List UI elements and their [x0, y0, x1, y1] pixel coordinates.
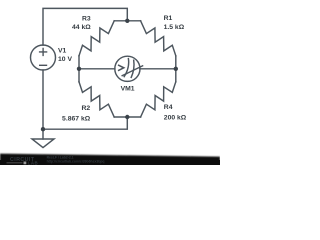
svg-text:44 kΩ: 44 kΩ [72, 24, 91, 31]
svg-text:R1: R1 [164, 15, 173, 22]
V1 minus sign [39, 64, 47, 66]
svg-text:1.5 kΩ: 1.5 kΩ [164, 24, 185, 31]
junction left node [77, 67, 81, 71]
voltmeter VM1 body [115, 56, 140, 81]
wire top rail [43, 8, 127, 45]
resistor R4 [141, 82, 176, 117]
wire bottom connector [43, 117, 127, 129]
junction top node [125, 19, 129, 23]
junction ground node [41, 127, 45, 131]
svg-text:R4: R4 [164, 104, 173, 111]
junction bottom node [125, 115, 129, 119]
svg-text:VM1: VM1 [121, 86, 135, 93]
voltmeter VM1 arc2 [131, 60, 134, 77]
footer logo square [24, 162, 27, 165]
footer logo rule [7, 162, 23, 164]
svg-text:R2: R2 [81, 105, 90, 112]
wire middle right [140, 68, 176, 70]
resistor R3 [79, 21, 114, 56]
resistor R2 [79, 82, 114, 117]
resistor R1 [141, 21, 176, 56]
V1 plus sign [39, 48, 47, 56]
svg-text:200 kΩ: 200 kΩ [164, 114, 187, 121]
wire middle left [79, 68, 115, 70]
svg-text:5.867 kΩ: 5.867 kΩ [62, 115, 91, 122]
wire left node stubs [78, 56, 80, 82]
junction right node [174, 67, 178, 71]
VM1 arrow [118, 65, 124, 71]
footer bar [0, 154, 220, 165]
svg-text:http://circuitlab.com/c/39b6hs: http://circuitlab.com/c/39b6hsx3bpq [47, 159, 105, 163]
svg-text:V1: V1 [58, 47, 67, 54]
wire top node stubs [114, 20, 140, 22]
ground [32, 139, 54, 148]
wire right node stubs [175, 56, 177, 82]
wire left rail lower [42, 70, 44, 139]
voltage source V1 [31, 45, 56, 70]
voltmeter VM1 arc1 [124, 59, 128, 77]
voltmeter VM1 needle [122, 66, 142, 76]
svg-text:10 V: 10 V [58, 56, 72, 63]
wire bottom node stubs [114, 116, 140, 118]
svg-text:R3: R3 [82, 15, 91, 22]
svg-text:LAB: LAB [28, 160, 39, 165]
